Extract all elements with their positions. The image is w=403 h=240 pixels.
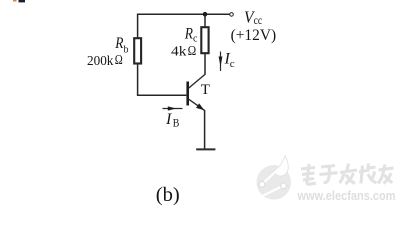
top edge artifact dark (19, 0, 26, 2)
wire left vertical upper (137, 14, 139, 39)
transistor T collector lead (189, 74, 205, 88)
terminal Vcc open circle (230, 13, 234, 17)
transistor T emitter lead (189, 99, 205, 110)
watermark logo trace lower (257, 187, 282, 200)
watermark chinese text shao (359, 164, 377, 184)
svg-text:(+12V): (+12V) (231, 27, 277, 44)
watermark url text (297, 189, 396, 203)
wire left vertical lower (137, 64, 139, 96)
wire top horizontal (137, 13, 230, 15)
wire base horizontal (137, 94, 187, 96)
svg-text:Ω: Ω (188, 44, 197, 59)
ground (196, 148, 215, 150)
label Ic (224, 51, 235, 70)
label Rb (114, 35, 128, 55)
svg-text:R: R (184, 25, 193, 42)
resistor Rb (134, 38, 141, 63)
current arrow Ib (163, 106, 183, 110)
label Rc (184, 25, 198, 44)
watermark logo circle (257, 156, 292, 200)
watermark chinese text zi (320, 166, 338, 183)
transistor T base bar (186, 82, 189, 106)
svg-text:B: B (173, 117, 180, 129)
svg-text:Ω: Ω (115, 53, 123, 68)
current arrow Ic (219, 52, 223, 72)
label Vcc (244, 7, 262, 27)
svg-text:R: R (114, 35, 123, 52)
wire emitter vertical (204, 110, 206, 149)
wire right vertical upper (204, 14, 206, 27)
label Ib (165, 111, 180, 129)
svg-text:(b): (b) (156, 184, 180, 206)
svg-text:cc: cc (254, 13, 263, 27)
svg-text:b: b (124, 45, 129, 56)
svg-text:www.elecfans.com: www.elecfans.com (297, 189, 396, 203)
label 200k ohm (87, 53, 123, 69)
watermark chinese text dian (301, 164, 316, 184)
caption (b) (156, 184, 180, 206)
watermark logo trace upper (264, 168, 281, 183)
wire collector vertical (204, 53, 206, 75)
watermark logo pad A (259, 181, 265, 187)
node junction dot (203, 12, 208, 17)
resistor Rc (201, 27, 208, 53)
label 4k ohm (171, 44, 196, 59)
watermark logo pad B (281, 183, 287, 189)
top edge artifact orange (13, 0, 17, 2)
label +12V (231, 27, 277, 44)
svg-text:T: T (201, 82, 210, 98)
watermark chinese text fa (340, 164, 358, 185)
watermark chinese text you (378, 165, 394, 184)
label T (201, 82, 210, 98)
svg-text:c: c (193, 33, 198, 44)
svg-text:4k: 4k (171, 45, 187, 60)
svg-text:200k: 200k (87, 54, 113, 69)
svg-text:c: c (230, 58, 235, 70)
svg-text:I: I (165, 111, 172, 128)
